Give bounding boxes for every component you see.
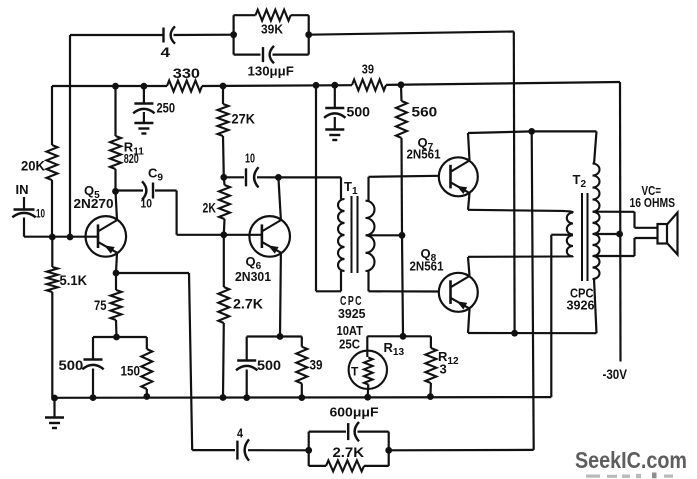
label 4 bottom (237, 427, 243, 441)
transistor Q7 base bar (449, 165, 452, 189)
wire speaker lower yoke (635, 237, 658, 239)
wire rail left (52, 85, 167, 87)
node feedback/base (67, 234, 74, 241)
wire right vertical x=514 (513, 32, 516, 334)
wire R12 top lead (430, 336, 432, 348)
label T1 (344, 179, 358, 197)
transformer T2 primary winding lower (567, 235, 573, 256)
transistor Q6 emitter lead (262, 242, 281, 253)
label R11 (124, 140, 144, 158)
label 39 supply (362, 63, 374, 77)
wire speaker lower rise (633, 238, 635, 256)
watermark bottom artifact (586, 473, 673, 479)
wire Q7 emitter down (468, 193, 470, 210)
svg-text:2N270: 2N270 (74, 196, 114, 211)
resistor 560 (396, 101, 407, 138)
wire R11 top lead (114, 86, 116, 136)
label IN (16, 182, 29, 197)
node speaker middle tap (616, 231, 623, 238)
wire T2 tap upper (594, 211, 635, 213)
wire T2 tap middle (594, 233, 620, 235)
transformer T1 core 1 (351, 196, 353, 273)
node 39/560 junction (398, 81, 405, 88)
label 10 under C9 (141, 197, 153, 211)
wire input bottom lead (23, 218, 25, 237)
wire T2 sec bottom stub (594, 279, 597, 334)
node 500M rail (243, 394, 250, 401)
svg-text:560: 560 (412, 105, 438, 120)
wire T1 center tap (366, 234, 402, 236)
wire tap down (402, 235, 403, 336)
label 560 (412, 105, 438, 120)
wire 500T bottom stub (334, 117, 336, 129)
ground (250 cap) (134, 123, 153, 134)
wire bottom fb right (389, 449, 534, 452)
label 75 (94, 298, 107, 313)
node R11 top (112, 83, 119, 90)
node Q5 collector (112, 188, 119, 195)
node Q6 emitter (277, 333, 284, 340)
svg-text:150: 150 (121, 363, 141, 378)
wire T1 sec bottom stub (367, 271, 369, 291)
node T1 feed (313, 82, 320, 89)
wire box1 bottom-right (273, 53, 309, 55)
label 39 Q6emitter (310, 358, 323, 373)
label 10AT (337, 324, 364, 338)
wire box1 bottom-left (234, 53, 261, 55)
wire feedback up x=533 (532, 131, 534, 450)
svg-text:10: 10 (245, 152, 255, 166)
wire Q5 base (24, 236, 98, 238)
label 2N270 (74, 196, 114, 211)
svg-text:130μμF: 130μμF (248, 64, 294, 79)
label 600uuF (330, 405, 379, 420)
transformer T1 core 2 (357, 196, 359, 273)
label Q8 (421, 246, 437, 264)
transistor Q7 emitter lead (451, 182, 470, 193)
transistor Q5 emitter arrow (104, 245, 115, 253)
svg-text:5.1K: 5.1K (60, 273, 88, 288)
wire rail mid (202, 84, 352, 87)
wire Q5 emitter down (116, 253, 117, 273)
wire T1 pri bottom stub (340, 271, 342, 291)
wire Q6 collector up (278, 177, 281, 220)
node Q6 base/2K/2.7K (220, 231, 227, 238)
capacitor 10 (input) (12, 210, 35, 218)
wire Q6 base (177, 234, 262, 236)
wire 10cap right lead (257, 176, 278, 178)
wire speaker upper drop (633, 212, 635, 228)
svg-text:16 OHMS: 16 OHMS (630, 195, 676, 210)
resistor 27K (218, 104, 229, 136)
wire R13 top lead (366, 336, 368, 357)
label T2 (573, 172, 587, 190)
label 500 Q5emitter (59, 358, 84, 373)
node Q5 emitter (113, 270, 120, 277)
wire Q7 collector up (468, 133, 470, 160)
label 2N301 (235, 269, 271, 284)
node rail left (51, 395, 58, 402)
capacitor 4 (top feedback) (164, 26, 176, 43)
label 20K (21, 158, 45, 173)
label 27K (232, 112, 256, 127)
svg-text:2K: 2K (203, 200, 217, 215)
wire T2 center tap (551, 234, 573, 236)
transformer T1 secondary winding (366, 201, 375, 271)
node emitter/feedback junction (511, 330, 518, 337)
thermistor R13 circle (349, 351, 387, 389)
thermistor R13 element (364, 358, 373, 385)
transistor Q7 circle (439, 157, 478, 196)
wire 500/150 bar (93, 336, 147, 338)
wire 39M top stub (301, 337, 303, 347)
wire Q7 base (369, 176, 439, 177)
wire 250 bottom stub (143, 112, 145, 123)
node 2.7K rail (220, 394, 227, 401)
node 500L rail (90, 394, 97, 401)
label 3 (440, 362, 447, 377)
wire Q8 base (369, 290, 439, 292)
capacitor 500 (Q6 emitter) (236, 361, 257, 371)
wire ground stub (53, 398, 55, 418)
wire box1 right edge (308, 15, 310, 54)
node 500 supply top (331, 82, 338, 89)
node 27K/2K/cap (220, 174, 227, 181)
svg-text:4: 4 (161, 44, 171, 60)
label 2K (203, 200, 217, 215)
wire T2 center tap down (550, 235, 552, 397)
svg-text:27K: 27K (232, 112, 256, 127)
node 150 rail (143, 393, 150, 400)
label Q7 (418, 135, 434, 153)
wire 560 bottom lead (400, 138, 403, 235)
node 39K box right (305, 31, 312, 38)
wire box1 left edge (233, 15, 235, 54)
capacitor 500 (Q5 emitter) (82, 360, 103, 370)
resistor 5.1K (47, 267, 58, 292)
svg-text:39: 39 (362, 63, 374, 77)
box2 right edge (388, 432, 390, 466)
wire 2K top lead (223, 177, 226, 185)
label 2N561 (Q7) (407, 147, 441, 162)
svg-text:20K: 20K (21, 158, 45, 173)
wire 20K top lead (51, 86, 53, 145)
svg-text:500: 500 (257, 358, 281, 373)
transistor Q6 base bar (261, 224, 264, 248)
resistor 39 (Q6 emitter) (296, 347, 307, 384)
label C9 (148, 166, 163, 184)
transistor Q8 emitter lead (451, 298, 470, 309)
wire Q8 emitter down (468, 309, 470, 333)
wire Q7 collector rail (468, 131, 532, 133)
svg-text:25C: 25C (339, 337, 360, 351)
transistor Q5 collector lead (98, 220, 117, 231)
transistor Q5 circle (86, 216, 127, 257)
capacitor 10 (interstage) (246, 167, 259, 187)
label VC= (642, 183, 662, 198)
capacitor C9 (142, 181, 153, 199)
speaker cone (667, 213, 678, 255)
label 500 supply (347, 105, 371, 120)
node R13 rail (364, 394, 371, 401)
speaker coil box (658, 224, 668, 244)
wire 560 top lead (400, 85, 403, 101)
wire T1 sec top stub (367, 177, 369, 201)
label R13 (384, 340, 405, 358)
label 25C (339, 337, 360, 351)
svg-text:2.7K: 2.7K (233, 297, 263, 312)
wire C9 elbow down (176, 191, 178, 235)
wire Q8 collector to T2 pri (468, 255, 573, 258)
wire 2K bottom lead (223, 219, 226, 235)
wire T1 pri bottom wire (316, 290, 341, 292)
svg-text:600μμF: 600μμF (330, 405, 379, 420)
wire T2 sec top stub (594, 131, 597, 164)
wire feedback down x=192 (189, 273, 192, 450)
svg-text:10: 10 (141, 197, 153, 211)
svg-text:75: 75 (94, 298, 107, 313)
wire R12 bottom lead (429, 383, 432, 397)
wire bottom fb left (192, 449, 235, 451)
node box2 left (305, 447, 312, 454)
svg-text:39: 39 (310, 358, 323, 373)
transistor Q7 emitter arrow (457, 186, 468, 194)
box2 top-left (309, 431, 346, 433)
resistor 150 (141, 349, 152, 389)
label T thermistor (351, 365, 359, 379)
transformer T1 primary winding (338, 199, 344, 271)
wire 27K bottom lead (222, 136, 225, 177)
wire 39M bottom stub (301, 383, 303, 397)
resistor 2.7K (feedback) (326, 460, 364, 471)
wire box1 top-right (291, 14, 309, 16)
transistor Q5 emitter lead (98, 242, 117, 253)
resistor R11 820 (110, 136, 121, 169)
svg-text:39K: 39K (261, 22, 284, 37)
label 500 Q6emitter (257, 358, 281, 373)
wire Q5 collector up (116, 191, 118, 220)
wire bottom fb mid (248, 449, 309, 451)
resistor 75 (111, 290, 122, 320)
node base/20K/5.1K (49, 234, 56, 241)
node 39K box left (230, 31, 237, 38)
resistor 39 (supply) (352, 80, 386, 91)
node 250 top (141, 83, 148, 90)
wire rail right (386, 82, 620, 85)
wire R13 bottom lead (367, 385, 370, 398)
wire Q8 collector up (468, 257, 470, 276)
svg-text:2N561: 2N561 (407, 147, 441, 162)
capacitor 600uuF (348, 422, 359, 441)
transformer T2 primary winding upper (567, 213, 573, 235)
node 27K top (220, 83, 227, 90)
capacitor 250 (133, 104, 154, 114)
wire 150 top stub (146, 337, 148, 349)
resistor 2K (219, 185, 230, 219)
transistor Q7 collector lead (451, 161, 470, 172)
wire speaker upper yoke (635, 227, 658, 229)
box2 bottom-left (309, 465, 326, 467)
svg-text:-30V: -30V (603, 367, 628, 382)
svg-text:500: 500 (347, 105, 371, 120)
label 39K (261, 22, 284, 37)
wire feedback left vertical (69, 35, 71, 237)
wire Q8 emitter rail (468, 332, 597, 334)
transformer T2 secondary winding (593, 164, 600, 280)
wire to T2 sec top (532, 130, 597, 132)
wire 500L stub (92, 337, 94, 359)
wire top to corner (309, 32, 514, 35)
wire 10cap left lead (224, 176, 244, 178)
wire 27K top lead (222, 86, 224, 104)
wire Q7 emitter to T2 pri (468, 210, 573, 213)
node R12 rail (427, 393, 434, 400)
resistor 39K (256, 10, 291, 21)
label 820 (124, 152, 139, 166)
wire C9 left lead (116, 189, 144, 191)
wire R11 bottom lead (114, 169, 116, 191)
wire 2.7K top lead (223, 235, 225, 287)
wire -30V feed x=620 (619, 82, 622, 362)
wire Q6 collector to T1 (278, 176, 341, 178)
svg-text:10AT: 10AT (337, 324, 364, 338)
node 39M rail (298, 394, 305, 401)
label 2N561 (Q8) (410, 259, 444, 274)
node box2 right (385, 447, 392, 454)
label 250 (157, 101, 176, 116)
svg-text:4: 4 (237, 427, 243, 441)
svg-text:2N561: 2N561 (410, 259, 444, 274)
wire (174, 34, 234, 36)
wire 500/39 bar (247, 335, 302, 337)
label 130uuF (248, 64, 294, 79)
label CPC 3925 (338, 294, 366, 321)
wire 20K bottom lead (51, 180, 53, 237)
svg-text:CPC: CPC (340, 294, 363, 308)
wire 2.7K bottom lead (222, 323, 225, 398)
wire 5.1K bottom lead (51, 292, 53, 398)
svg-text:IN: IN (16, 182, 29, 197)
wire box1 top-left (234, 14, 256, 16)
transistor Q8 base bar (449, 280, 452, 304)
svg-text:10: 10 (36, 207, 45, 221)
box2 left edge (308, 432, 310, 466)
label 10 input (36, 207, 45, 221)
ground (main) (45, 418, 64, 429)
label 4 (161, 44, 171, 60)
label R12 (438, 349, 459, 367)
wire 250 top stub (143, 86, 145, 103)
resistor R12 3ohm (425, 348, 436, 383)
ground (500 supply) (325, 130, 344, 141)
transistor Q6 collector lead (262, 220, 281, 231)
node Q7 collector junction (528, 128, 535, 135)
wire 5.1K top lead (51, 237, 53, 267)
wire C9 right lead (155, 189, 177, 191)
wire R12 bar right (403, 335, 431, 337)
wire T2 tap lower (594, 255, 635, 257)
transformer T2 core 2 (587, 193, 589, 281)
wire 500L bottom stub (92, 369, 94, 398)
wire 500M stub (246, 337, 248, 361)
svg-text:3926: 3926 (567, 299, 595, 313)
label -30V (603, 367, 628, 382)
resistor 2.7K (Q6 base) (218, 287, 229, 323)
wire 75 bottom lead (115, 320, 118, 337)
wire 75 top lead (115, 273, 117, 290)
transistor Q8 circle (439, 273, 478, 312)
label 16 OHMS (630, 195, 676, 210)
svg-text:3: 3 (440, 362, 447, 377)
wire 500M bottom stub (246, 370, 248, 398)
transistor Q5 base bar (97, 224, 100, 248)
svg-text:SeekIC.com: SeekIC.com (575, 447, 687, 473)
svg-text:2N301: 2N301 (235, 269, 271, 284)
label 330 (173, 65, 200, 81)
transistor Q8 emitter arrow (457, 301, 468, 309)
transistor Q6 circle (249, 216, 290, 257)
wire 500T stub (334, 85, 336, 107)
svg-text:3925: 3925 (338, 307, 366, 321)
svg-text:2.7K: 2.7K (333, 445, 365, 460)
capacitor 4 (bottom) (237, 439, 249, 460)
transistor Q8 collector lead (451, 276, 470, 287)
resistor 330 (167, 81, 202, 92)
transformer T2 core 1 (581, 193, 583, 281)
node T1 center tap (399, 232, 406, 239)
label 2.7K bottom (333, 445, 365, 460)
svg-text:250: 250 (157, 101, 176, 116)
node thermistor bar (400, 333, 407, 340)
wire R13 bar left (367, 335, 403, 337)
wire bottom rail (52, 396, 551, 399)
wire 150 bottom stub (146, 389, 148, 397)
wire input top lead (23, 197, 25, 209)
capacitor 130uuF (263, 46, 274, 63)
box2 top-right (358, 431, 389, 433)
label 10 interstage (245, 152, 255, 166)
label 150 (121, 363, 141, 378)
wire T1 feed x=316 (315, 85, 317, 291)
watermark SeekIC.com (575, 447, 687, 473)
label CPC 3926 (567, 286, 595, 312)
svg-text:T: T (351, 365, 359, 379)
label Q6 (246, 254, 262, 272)
svg-text:330: 330 (173, 65, 200, 81)
capacitor 500 (supply) (324, 108, 345, 118)
resistor 20K (47, 145, 58, 180)
svg-text:820: 820 (124, 152, 139, 166)
node 75 bottom (113, 334, 120, 341)
box2 bottom-right (364, 465, 389, 467)
transistor Q6 emitter arrow (268, 245, 279, 253)
node Q6 collector junction (275, 174, 282, 181)
wire emitter right (116, 272, 189, 274)
svg-text:500: 500 (59, 358, 84, 373)
label 2.7K mid (233, 297, 263, 312)
wire Q6 emitter down (279, 253, 282, 337)
label 5.1K (60, 273, 88, 288)
label Q5 (84, 183, 100, 201)
wire top feedback horizontal (70, 34, 163, 36)
wire T1 pri top stub (340, 177, 342, 199)
